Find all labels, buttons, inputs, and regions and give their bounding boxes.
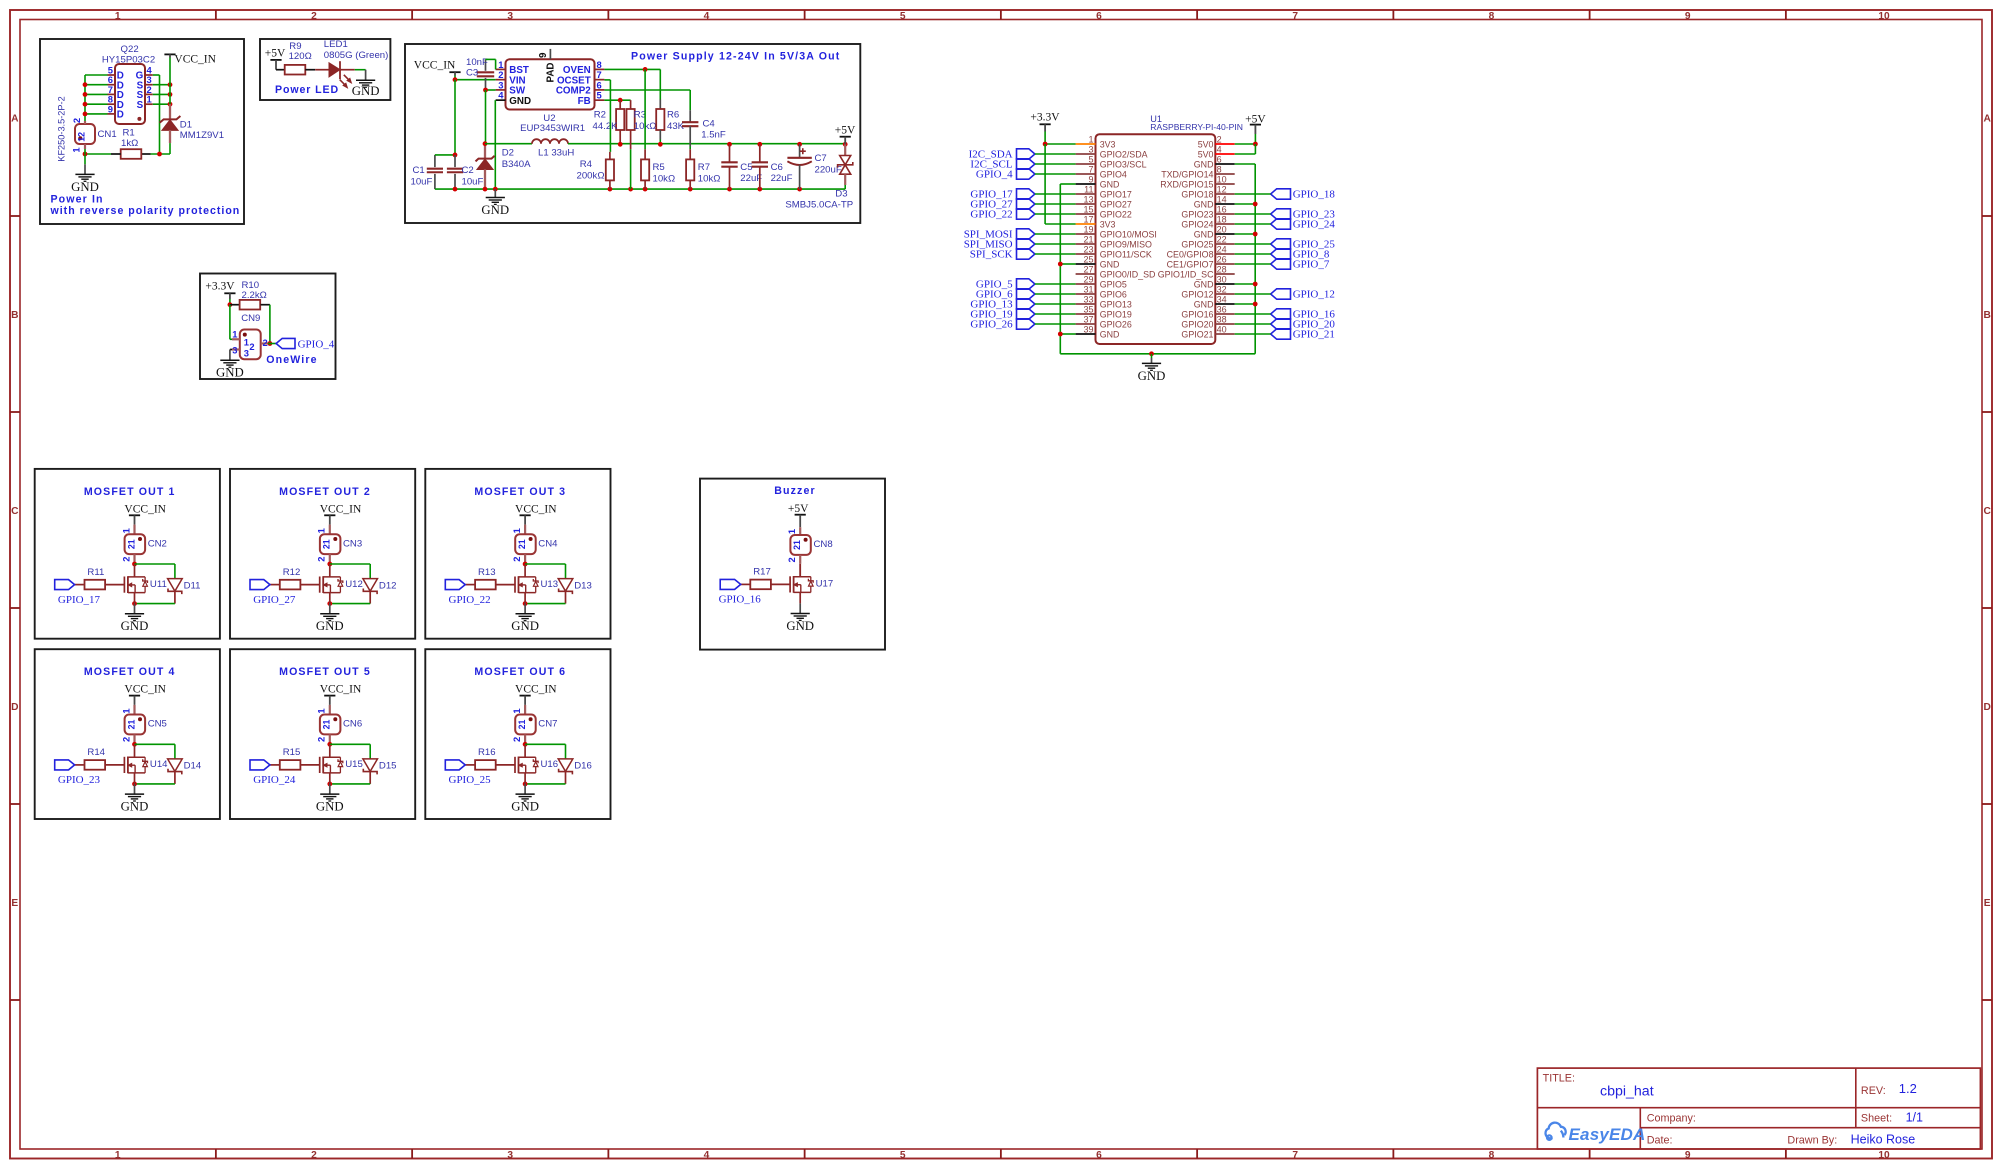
capacitor C3 <box>477 59 494 90</box>
diode D1 zener <box>160 104 181 143</box>
svg-text:MOSFET OUT 5: MOSFET OUT 5 <box>279 666 371 678</box>
wire C3 to BST <box>486 58 496 60</box>
svg-text:R14: R14 <box>87 747 105 758</box>
svg-text:GPIO_4: GPIO_4 <box>976 168 1013 180</box>
svg-text:10: 10 <box>1878 1150 1890 1161</box>
junction dot source node of MOSFET OUT 3 <box>523 601 528 606</box>
svg-text:S: S <box>137 100 144 111</box>
transistor U15 <box>320 745 343 784</box>
svg-text:MM1Z9V1: MM1Z9V1 <box>180 130 224 141</box>
svg-text:GND: GND <box>316 800 344 814</box>
svg-text:5: 5 <box>900 1150 906 1161</box>
svg-text:Heiko Rose: Heiko Rose <box>1851 1133 1916 1147</box>
svg-text:33: 33 <box>1083 294 1093 304</box>
wire drain node to D14 <box>135 743 175 745</box>
wire LED1 to ground <box>355 69 366 71</box>
wire source to ground of MOSFET OUT 2 <box>329 604 331 614</box>
svg-text:GPIO19: GPIO19 <box>1100 310 1132 320</box>
svg-text:D14: D14 <box>184 761 202 772</box>
junction dots on ground rail <box>453 187 802 192</box>
wire GPIO_4 to U1 <box>1035 173 1076 175</box>
svg-text:U15: U15 <box>345 759 363 770</box>
svg-text:C3: C3 <box>466 68 478 79</box>
wire +5V to pin2 <box>1254 134 1256 144</box>
svg-text:RXD/GPIO15: RXD/GPIO15 <box>1160 180 1213 190</box>
svg-text:21: 21 <box>126 720 136 730</box>
svg-text:3: 3 <box>244 348 249 359</box>
wire +3.3V node <box>229 299 231 305</box>
svg-text:SPI_SCK: SPI_SCK <box>970 248 1013 260</box>
svg-text:GPIO18: GPIO18 <box>1181 190 1213 200</box>
svg-text:3: 3 <box>507 1150 513 1161</box>
svg-text:U13: U13 <box>541 579 559 590</box>
frame column ticks bottom <box>216 1149 1786 1159</box>
ic U1 right pins <box>1158 134 1235 339</box>
svg-text:16: 16 <box>1217 204 1227 214</box>
wire VCC_IN down to D1 <box>169 58 171 105</box>
svg-text:GPIO_22: GPIO_22 <box>449 594 491 606</box>
svg-text:26: 26 <box>1217 254 1227 264</box>
wire CN1 to ground <box>84 149 86 154</box>
power flag VCC_IN of MOSFET OUT 4 <box>124 684 166 705</box>
net port GPIO_4 <box>976 168 1035 180</box>
svg-text:MOSFET OUT 4: MOSFET OUT 4 <box>84 666 176 678</box>
svg-text:GND: GND <box>216 366 244 380</box>
svg-text:TXD/GPIO14: TXD/GPIO14 <box>1161 170 1213 180</box>
svg-text:25: 25 <box>1083 254 1093 264</box>
svg-text:2: 2 <box>511 556 522 561</box>
svg-text:GND: GND <box>1100 180 1120 190</box>
svg-text:4: 4 <box>704 11 710 22</box>
svg-text:21: 21 <box>322 539 332 549</box>
wire VCC_IN down to C1/C2 <box>454 80 456 155</box>
svg-text:2: 2 <box>316 556 327 561</box>
svg-text:38: 38 <box>1217 314 1227 324</box>
net port GPIO_4 of OneWire <box>276 338 335 350</box>
svg-text:22uF: 22uF <box>771 173 793 184</box>
svg-text:GND: GND <box>786 619 814 633</box>
ground of supply <box>494 189 496 197</box>
wire 5V0 down to pin4 <box>1254 144 1256 154</box>
svg-text:GPIO2/SDA: GPIO2/SDA <box>1100 150 1148 160</box>
svg-text:1: 1 <box>1088 134 1093 144</box>
svg-text:13: 13 <box>1083 194 1093 204</box>
resistor R13 <box>465 580 515 590</box>
svg-text:MOSFET OUT 1: MOSFET OUT 1 <box>84 486 176 498</box>
connector CN6 <box>316 705 341 744</box>
svg-text:GPIO_24: GPIO_24 <box>253 774 296 786</box>
section box Power LED <box>260 39 390 100</box>
svg-text:2: 2 <box>311 11 317 22</box>
wire GPIO_17 to U1 <box>1035 193 1076 195</box>
svg-text:CN6: CN6 <box>343 719 362 730</box>
svg-text:40: 40 <box>1217 324 1227 334</box>
power flag +5V of Buzzer <box>788 503 809 527</box>
wire R9 to LED1 <box>305 69 315 71</box>
power flag +5V of LED <box>265 47 286 69</box>
svg-text:GPIO6: GPIO6 <box>1100 290 1127 300</box>
transistor U14 <box>124 745 147 784</box>
svg-text:VCC_IN: VCC_IN <box>174 54 216 66</box>
inductor L1 <box>485 139 568 144</box>
svg-text:C: C <box>11 506 19 517</box>
wire GPIO_5 to U1 <box>1035 283 1076 285</box>
ground <box>121 794 149 813</box>
svg-text:1.2: 1.2 <box>1899 1081 1917 1096</box>
wire source to ground of Buzzer <box>799 603 801 613</box>
svg-text:3: 3 <box>507 11 513 22</box>
junction dots on Q22 left bus <box>83 82 88 116</box>
wire D14 to source node <box>135 783 175 785</box>
resistor R7 <box>686 147 694 190</box>
transistor Q22 right pins <box>136 64 153 110</box>
svg-text:R7: R7 <box>698 162 710 173</box>
power flag +5V of supply <box>835 124 856 144</box>
svg-text:D12: D12 <box>379 580 397 591</box>
wire output rail +5V <box>568 143 845 145</box>
svg-text:D: D <box>11 702 18 713</box>
svg-text:37: 37 <box>1083 314 1093 324</box>
wire +3.3V to pin1 <box>1044 132 1046 145</box>
net port GPIO_22 of MOSFET OUT 3 <box>445 580 490 606</box>
ic U2 PAD pin 9 <box>538 49 557 83</box>
wire GPIO_12 to U1 <box>1235 293 1271 295</box>
svg-text:GPIO_23: GPIO_23 <box>58 774 101 786</box>
svg-text:D1: D1 <box>180 119 192 130</box>
svg-text:VCC_IN: VCC_IN <box>124 503 166 515</box>
section box Power Supply <box>405 44 860 223</box>
resistor R1 <box>111 149 151 159</box>
net port GPIO_6 <box>976 288 1035 300</box>
svg-text:2: 2 <box>71 118 82 123</box>
svg-text:with reverse polarity protecti: with reverse polarity protection <box>50 205 241 217</box>
svg-text:44.2K: 44.2K <box>593 121 619 132</box>
wire GPIO_27 to U1 <box>1035 203 1076 205</box>
svg-text:GPIO10/MOSI: GPIO10/MOSI <box>1100 230 1157 240</box>
svg-text:L1 33uH: L1 33uH <box>538 147 574 158</box>
svg-text:1: 1 <box>244 336 249 347</box>
svg-text:1kΩ: 1kΩ <box>121 138 138 149</box>
wire CN9 pin2 to port <box>268 343 276 345</box>
svg-text:R1: R1 <box>123 127 135 138</box>
svg-text:D13: D13 <box>574 580 592 591</box>
power flag +5V of U1 <box>1245 113 1266 134</box>
svg-text:VCC_IN: VCC_IN <box>414 59 456 71</box>
ground <box>1138 363 1166 382</box>
section box OneWire <box>200 274 336 380</box>
svg-text:34: 34 <box>1217 294 1227 304</box>
junction dot gate node <box>157 152 162 157</box>
ground <box>316 614 344 633</box>
svg-text:32: 32 <box>1217 284 1227 294</box>
wire source to ground of MOSFET OUT 5 <box>329 784 331 794</box>
svg-text:4: 4 <box>498 90 504 101</box>
ic U1 left pins <box>1076 134 1157 339</box>
svg-text:GPIO_12: GPIO_12 <box>1293 288 1335 300</box>
wire GPIO_22 to U1 <box>1035 213 1076 215</box>
svg-text:A: A <box>1984 114 1992 125</box>
svg-text:5: 5 <box>1088 154 1093 164</box>
svg-text:31: 31 <box>1083 284 1093 294</box>
svg-text:39: 39 <box>1083 324 1093 334</box>
svg-text:9: 9 <box>1685 11 1691 22</box>
svg-text:21: 21 <box>126 539 136 549</box>
ground <box>511 794 539 813</box>
svg-text:+5V: +5V <box>788 503 809 515</box>
svg-text:+3.3V: +3.3V <box>205 280 235 292</box>
section box MOSFET OUT 5 <box>230 649 415 819</box>
svg-text:E: E <box>11 898 18 909</box>
svg-text:Drawn By:: Drawn By: <box>1787 1135 1837 1147</box>
capacitor C5 <box>721 144 737 189</box>
wire GND bus bottom <box>1060 353 1255 355</box>
svg-text:GND: GND <box>1138 369 1166 383</box>
svg-text:SMBJ5.0CA-TP: SMBJ5.0CA-TP <box>785 200 853 211</box>
svg-text:GPIO13: GPIO13 <box>1100 300 1132 310</box>
svg-text:U17: U17 <box>816 579 834 590</box>
section box MOSFET OUT 1 <box>35 469 220 639</box>
svg-text:30: 30 <box>1217 274 1227 284</box>
svg-text:21: 21 <box>1083 234 1093 244</box>
svg-text:1: 1 <box>115 1150 121 1161</box>
transistor U17 <box>790 564 813 603</box>
svg-text:R6: R6 <box>667 110 679 121</box>
svg-text:CN1: CN1 <box>98 129 117 140</box>
wire source to ground of MOSFET OUT 3 <box>524 604 526 614</box>
svg-text:6: 6 <box>1096 1150 1102 1161</box>
junction dot source node of MOSFET OUT 1 <box>132 601 137 606</box>
ic U2 body <box>506 59 595 109</box>
svg-text:LED1: LED1 <box>324 39 348 50</box>
svg-text:C: C <box>1984 506 1992 517</box>
svg-text:GND: GND <box>1100 330 1120 340</box>
resistor R15 <box>270 760 320 770</box>
svg-text:1/1: 1/1 <box>1906 1111 1923 1125</box>
svg-text:1: 1 <box>511 708 522 713</box>
svg-text:3: 3 <box>1088 144 1093 154</box>
svg-text:R3: R3 <box>634 110 646 121</box>
svg-text:10kΩ: 10kΩ <box>698 173 721 184</box>
svg-text:2: 2 <box>249 341 254 352</box>
junction dot drain node of MOSFET OUT 2 <box>327 562 332 567</box>
svg-text:7: 7 <box>1292 11 1298 22</box>
svg-text:3: 3 <box>232 344 237 355</box>
wire +5V to R9 <box>276 69 285 71</box>
net port GPIO_27 of MOSFET OUT 2 <box>250 580 296 606</box>
net port GPIO_19 <box>970 308 1034 320</box>
svg-text:1: 1 <box>786 529 797 534</box>
capacitor C7 polarized <box>787 144 811 189</box>
svg-text:CN8: CN8 <box>814 539 833 550</box>
net port GPIO_24 <box>1271 218 1336 230</box>
svg-text:D: D <box>1984 702 1991 713</box>
resistor R14 <box>75 760 125 770</box>
svg-text:KF250-3.5-2P-2: KF250-3.5-2P-2 <box>57 96 67 161</box>
svg-text:RASPBERRY-PI-40-PIN: RASPBERRY-PI-40-PIN <box>1150 122 1243 132</box>
svg-text:1: 1 <box>120 528 131 533</box>
resistor R4 <box>606 152 614 189</box>
svg-text:GND: GND <box>1194 160 1214 170</box>
svg-text:D15: D15 <box>379 761 397 772</box>
wire OCSET to R4 <box>604 79 610 81</box>
wire GPIO_25 to U1 <box>1235 243 1271 245</box>
frame column ticks top <box>216 10 1786 20</box>
svg-text:R16: R16 <box>478 747 496 758</box>
svg-text:2: 2 <box>120 556 131 561</box>
svg-text:15: 15 <box>1083 204 1093 214</box>
svg-text:MOSFET OUT 2: MOSFET OUT 2 <box>279 486 371 498</box>
wire D1 to R1 node <box>169 148 171 154</box>
diode D12 <box>363 579 378 604</box>
svg-text:1: 1 <box>316 708 327 713</box>
capacitor C4 <box>682 110 698 146</box>
svg-text:R12: R12 <box>283 567 301 578</box>
svg-text:D2: D2 <box>502 147 514 158</box>
svg-text:GPIO_16: GPIO_16 <box>719 594 762 606</box>
power flag VCC_IN of MOSFET OUT 1 <box>124 503 166 524</box>
svg-text:GPIO11/SCK: GPIO11/SCK <box>1100 250 1152 260</box>
svg-text:GPIO_22: GPIO_22 <box>970 208 1012 220</box>
svg-text:8: 8 <box>1489 1150 1495 1161</box>
svg-text:GND: GND <box>1194 230 1214 240</box>
net port GPIO_17 <box>970 188 1034 200</box>
svg-text:9: 9 <box>1088 174 1093 184</box>
wire GPIO_6 to U1 <box>1035 293 1076 295</box>
svg-text:VCC_IN: VCC_IN <box>515 684 557 696</box>
svg-text:D11: D11 <box>184 580 201 591</box>
svg-text:3V3: 3V3 <box>1100 140 1116 150</box>
svg-text:29: 29 <box>1083 274 1093 284</box>
svg-text:+5V: +5V <box>835 124 856 136</box>
net port SPI_SCK <box>970 248 1035 260</box>
wire source to ground of MOSFET OUT 1 <box>134 604 136 614</box>
svg-text:R17: R17 <box>753 567 771 578</box>
svg-text:1: 1 <box>316 528 327 533</box>
ic U2 right pins <box>556 59 605 107</box>
svg-text:GND: GND <box>316 619 344 633</box>
svg-text:TITLE:: TITLE: <box>1543 1072 1575 1084</box>
svg-text:23: 23 <box>1083 244 1093 254</box>
wire left bus of Q22 <box>84 75 86 121</box>
net port GPIO_5 <box>976 278 1035 290</box>
wire GPIO_8 to U1 <box>1235 253 1271 255</box>
wire CN9 pin3 to ground <box>230 349 232 351</box>
svg-text:+5V: +5V <box>265 47 286 59</box>
svg-text:GND: GND <box>481 203 509 217</box>
svg-text:R15: R15 <box>283 747 301 758</box>
wire D15 to source node <box>330 783 370 785</box>
wire Q22 left pin stubs <box>85 75 108 114</box>
svg-text:GND: GND <box>509 96 531 107</box>
svg-text:GPIO_25: GPIO_25 <box>449 774 492 786</box>
resistor R10 <box>230 300 270 310</box>
wire GPIO_19 to U1 <box>1035 313 1076 315</box>
svg-text:R4: R4 <box>580 159 593 170</box>
svg-text:GND: GND <box>511 619 539 633</box>
svg-text:4: 4 <box>704 1150 710 1161</box>
frame row ticks right <box>1982 216 1992 1000</box>
resistor R2 <box>616 100 624 144</box>
svg-text:2: 2 <box>263 337 268 348</box>
svg-text:1: 1 <box>120 708 131 713</box>
wire source to ground of MOSFET OUT 6 <box>524 784 526 794</box>
svg-text:2.2kΩ: 2.2kΩ <box>242 290 267 301</box>
junction dot SW node <box>483 88 488 93</box>
svg-text:B: B <box>11 310 18 321</box>
svg-text:21: 21 <box>792 540 802 550</box>
svg-text:5V0: 5V0 <box>1198 150 1214 160</box>
svg-text:Sheet:: Sheet: <box>1861 1113 1892 1125</box>
resistor R11 <box>75 580 125 590</box>
svg-text:22: 22 <box>1217 234 1227 244</box>
junction dot VIN node <box>453 77 458 82</box>
svg-text:GPIO_7: GPIO_7 <box>1293 258 1330 270</box>
connector CN8 <box>786 527 811 576</box>
frame column labels top <box>115 11 1890 22</box>
net port SPI_MOSI <box>964 228 1035 240</box>
logo EasyEDA <box>1545 1123 1645 1144</box>
svg-text:10kΩ: 10kΩ <box>653 173 676 184</box>
svg-text:Date:: Date: <box>1647 1135 1673 1147</box>
ground <box>316 794 344 813</box>
junction dot source node of MOSFET OUT 4 <box>132 782 137 787</box>
wire SPI_MISO to U1 <box>1035 243 1076 245</box>
svg-text:24: 24 <box>1217 244 1227 254</box>
svg-text:GPIO20: GPIO20 <box>1181 320 1213 330</box>
resistor R3 <box>627 100 635 189</box>
connector CN5 <box>120 705 145 744</box>
svg-text:GND: GND <box>1100 260 1120 270</box>
svg-text:R5: R5 <box>653 162 665 173</box>
svg-text:35: 35 <box>1083 304 1093 314</box>
wire SPI_MOSI to U1 <box>1035 233 1076 235</box>
svg-text:+5V: +5V <box>1245 113 1266 125</box>
junction dots left GND bus <box>1058 262 1063 337</box>
ground <box>786 614 814 633</box>
led LED1 <box>329 61 355 88</box>
svg-text:GPIO9/MISO: GPIO9/MISO <box>1100 240 1152 250</box>
svg-text:200kΩ: 200kΩ <box>577 170 605 181</box>
frame row labels right <box>1984 114 1992 909</box>
wire SPI_SCK to U1 <box>1035 253 1076 255</box>
svg-text:GND: GND <box>121 619 149 633</box>
svg-text:GPIO27: GPIO27 <box>1100 200 1132 210</box>
svg-text:10uF: 10uF <box>462 177 484 188</box>
net port GPIO_16 of Buzzer <box>719 579 762 605</box>
svg-text:4: 4 <box>1217 144 1222 154</box>
power flag VCC_IN of supply <box>414 59 461 75</box>
power flag VCC_IN of MOSFET OUT 2 <box>320 503 362 524</box>
svg-text:CN3: CN3 <box>343 538 362 549</box>
wire I2C_SCL to U1 <box>1035 163 1076 165</box>
power flag +3.3V <box>1030 112 1060 132</box>
junction dot CN9 pin2 node <box>268 341 273 346</box>
svg-text:EUP3453WIR1: EUP3453WIR1 <box>520 123 585 134</box>
svg-text:2: 2 <box>511 737 522 742</box>
svg-text:2: 2 <box>316 737 327 742</box>
svg-text:OneWire: OneWire <box>266 354 317 366</box>
net port GPIO_12 <box>1271 288 1335 300</box>
resistor R9 <box>285 65 306 75</box>
svg-text:U11: U11 <box>150 579 167 590</box>
svg-text:GPIO22: GPIO22 <box>1100 210 1132 220</box>
svg-text:2: 2 <box>120 737 131 742</box>
svg-text:Company:: Company: <box>1647 1113 1696 1125</box>
svg-text:12: 12 <box>77 132 87 142</box>
power flag VCC_IN of MOSFET OUT 3 <box>515 503 557 524</box>
resistor R16 <box>465 760 515 770</box>
junction dot OVEN-R5 <box>643 67 648 72</box>
